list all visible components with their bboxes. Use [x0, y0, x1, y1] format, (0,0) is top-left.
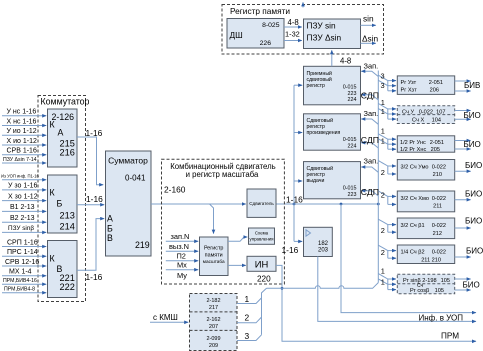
svg-text:К: К [50, 120, 56, 130]
svg-text:Δsin: Δsin [362, 34, 379, 44]
output wires 3/2 Сч β1 0-022 212 [455, 227, 471, 229]
svg-text:ДШ: ДШ [230, 30, 243, 40]
block ПЗУ sin / ПЗУ Δsin [304, 19, 361, 49]
svg-text:4-8: 4-8 [340, 57, 351, 66]
svg-text:0-041: 0-041 [125, 174, 146, 183]
svg-text:1/4 Сч β2: 1/4 Сч β2 [401, 250, 425, 256]
block 3/2 Сч Умо 0-022 210 [397, 160, 454, 181]
svg-text:ПРС 1-14: ПРС 1-14 [7, 249, 38, 256]
svg-text:2-099: 2-099 [206, 336, 220, 342]
block Рг Узт / Рг Хзт 2-051 206 [397, 76, 454, 95]
input wires 1/2 Рг Унс 2-051 / 1/2 Рг Хнс 205 [387, 139, 389, 149]
input wires Сч У 0-022 107 / Сч Х 104 [387, 109, 389, 119]
svg-text:ПРМ,БИВ4-16: ПРМ,БИВ4-16 [3, 278, 37, 284]
svg-text:Х нс 1-16: Х нс 1-16 [7, 118, 37, 125]
output wires 3/2 Сч Хмо 0-022 211 [455, 199, 471, 201]
svg-text:СДП: СДП [361, 187, 379, 197]
svg-text:Коммутатор: Коммутатор [41, 96, 90, 106]
up output stub arrow [302, 2, 304, 7]
input wires Рг sinβ 2-198 105 / Сч / Рг cosβ 105 [387, 279, 389, 290]
wire Зап. arrow into register at y71.2 [361, 71, 378, 76]
svg-text:Сдвиговый: Сдвиговый [307, 117, 334, 124]
svg-text:2-160: 2-160 [164, 185, 186, 195]
svg-text:Рг Хзт: Рг Хзт [401, 87, 418, 93]
memory register dashed box [222, 5, 384, 55]
svg-text:224: 224 [348, 143, 357, 149]
svg-text:К: К [50, 188, 56, 198]
svg-text:224: 224 [348, 97, 357, 103]
svg-text:2-162: 2-162 [206, 317, 220, 323]
input wires Рг Узт / Рг Хзт 2-051 206 [387, 81, 389, 91]
wire Δsin output [361, 42, 376, 44]
svg-text:ПЗУ Δsin: ПЗУ Δsin [307, 32, 342, 42]
svg-text:Зап.: Зап. [364, 62, 379, 71]
svg-text:207: 207 [209, 324, 218, 330]
svg-text:105: 105 [435, 288, 444, 294]
svg-text:БИО: БИО [465, 216, 482, 225]
svg-text:Зап.: Зап. [364, 157, 379, 166]
block 182 203 with clock triangle [304, 227, 333, 256]
svg-text:В2 2-13: В2 2-13 [10, 215, 35, 222]
output wires Сч У 0-022 107 / Сч Х 104 [455, 110, 471, 112]
svg-text:3: 3 [381, 71, 385, 80]
svg-text:2-051: 2-051 [430, 140, 444, 146]
svg-text:Рг Узт: Рг Узт [401, 80, 417, 86]
svg-text:206: 206 [430, 87, 439, 93]
KMSh dashed box with three cells [190, 294, 238, 351]
svg-text:БИО: БИО [465, 161, 482, 170]
wire СДП arrow into register at y142.7 [361, 143, 378, 148]
svg-text:2-126: 2-126 [52, 112, 75, 122]
svg-text:1/2 Рг Хнс: 1/2 Рг Хнс [400, 147, 426, 153]
svg-text:БИО: БИО [463, 281, 480, 290]
svg-text:223: 223 [348, 192, 357, 198]
svg-text:с КМШ: с КМШ [153, 313, 178, 322]
svg-text:Сдвигатель: Сдвигатель [249, 201, 274, 206]
junction at collector on bus [377, 203, 380, 206]
block 1/2 Рг Унс 2-051 / 1/2 Рг Хнс 205 [397, 136, 454, 152]
svg-text:регистр: регистр [307, 124, 326, 130]
svg-text:2: 2 [381, 168, 385, 177]
svg-text:Сумматор: Сумматор [108, 156, 148, 166]
svg-text:0-022: 0-022 [432, 223, 446, 229]
svg-text:1: 1 [381, 98, 385, 107]
svg-text:памяти: памяти [205, 252, 223, 258]
svg-text:Му: Му [177, 271, 187, 280]
junction ИН line with lower bus [281, 287, 284, 290]
input wires 3/2 Сч Умо 0-022 210 [387, 166, 389, 174]
svg-text:и регистр масштаба: и регистр масштаба [186, 170, 259, 179]
svg-text:БИВ: БИВ [464, 81, 480, 90]
svg-text:Б: Б [57, 199, 63, 209]
wire ПЗУ feed 4-8 from Приемный up [331, 50, 333, 66]
svg-text:182: 182 [318, 241, 329, 247]
svg-text:1-16: 1-16 [282, 245, 299, 255]
block Сч У 0-022 107 / Сч Х 104 [397, 106, 454, 124]
wire масштаба to ИН [228, 264, 246, 266]
svg-text:ИН: ИН [255, 259, 269, 270]
svg-text:П2: П2 [177, 251, 186, 260]
svg-text:205: 205 [431, 147, 440, 153]
wire bus Сдвигатель to right collector [276, 203, 378, 205]
svg-text:СРВ 1-16: СРВ 1-16 [7, 148, 37, 155]
svg-text:Сч Х: Сч Х [412, 117, 424, 123]
svg-text:1: 1 [381, 126, 385, 135]
svg-text:управления: управления [250, 236, 275, 241]
svg-text:Рг cosβ: Рг cosβ [410, 288, 429, 294]
svg-text:Из УОП инф. П1-16: Из УОП инф. П1-16 [1, 173, 40, 178]
svg-text:104: 104 [432, 117, 441, 123]
block Регистр памяти масштаба [200, 237, 229, 276]
svg-text:216: 216 [60, 147, 75, 157]
wire main collector x378 [377, 71, 379, 283]
block ДШ 8-025 226 [227, 19, 284, 49]
block Схема управления [249, 228, 275, 244]
svg-text:БИО: БИО [466, 247, 483, 256]
svg-text:226: 226 [260, 40, 272, 47]
output wires 1/2 Рг Унс 2-051 / 1/2 Рг Хнс 205 [455, 140, 471, 142]
svg-text:203: 203 [318, 247, 329, 253]
wire К Б output to Сумматор input Б [77, 204, 104, 206]
block 3/2 Сч β1 0-022 212 [397, 218, 454, 239]
wire ИН output down to ПРМ [276, 265, 476, 341]
svg-text:БИО: БИО [464, 140, 481, 149]
wire ДШ to ПЗУ 4-8 [284, 26, 302, 28]
svg-text:1: 1 [245, 294, 250, 304]
svg-text:Приемный: Приемный [307, 70, 333, 77]
svg-text:0-015: 0-015 [343, 85, 357, 91]
block Сдвиговый регистр произведения 0-015 224 [304, 114, 361, 150]
block Сдвигатель [247, 189, 276, 217]
svg-text:210: 210 [433, 172, 442, 178]
svg-text:ПРМ: ПРМ [441, 332, 459, 341]
wire ДШ to ПЗУ 1-32 [284, 40, 302, 42]
svg-text:СДП: СДП [361, 90, 379, 100]
svg-text:БИО: БИО [465, 190, 482, 199]
svg-text:220: 220 [257, 275, 271, 284]
svg-text:3/2 Сч β1: 3/2 Сч β1 [401, 223, 425, 229]
svg-text:СРП 1-16: СРП 1-16 [7, 239, 38, 246]
output wires Рг sinβ 2-198 105 / Сч / Рг cosβ 105 [455, 278, 471, 280]
wire cell2 output 2 [237, 317, 262, 323]
svg-text:1-16: 1-16 [86, 272, 103, 282]
input wires 1/4 Сч β2 0-022 211 210 [387, 251, 389, 259]
input wires 3/2 Сч β1 0-022 212 [387, 225, 389, 233]
svg-text:1: 1 [381, 136, 385, 145]
svg-text:213: 213 [60, 211, 75, 221]
block Приемный сдвиговый регистр 0-015 223 224 [304, 66, 361, 105]
svg-text:произведения: произведения [307, 130, 341, 136]
svg-text:1-16: 1-16 [86, 194, 103, 204]
svg-text:1/2 Рг Унс: 1/2 Рг Унс [400, 140, 426, 146]
svg-text:МХ 1-4: МХ 1-4 [9, 269, 32, 276]
block 3/2 Сч Хмо 0-022 211 [397, 191, 454, 212]
svg-text:Инф. в УОП: Инф. в УОП [419, 313, 464, 322]
svg-text:регистр: регистр [307, 172, 326, 178]
svg-text:214: 214 [60, 222, 75, 232]
svg-text:Сдвиговый: Сдвиговый [307, 165, 334, 172]
svg-text:Х зо 1-12: Х зо 1-12 [8, 193, 38, 200]
svg-text:Схема: Схема [255, 231, 269, 236]
block Сумматор 0-041 219 [106, 151, 152, 256]
wire sin output [361, 24, 376, 26]
svg-text:СДП: СДП [361, 135, 379, 145]
svg-text:2-051: 2-051 [429, 80, 443, 86]
svg-text:0-022: 0-022 [432, 196, 446, 202]
output wires 3/2 Сч Умо 0-022 210 [455, 170, 471, 172]
svg-text:Х ио 1-12: Х ио 1-12 [7, 138, 37, 145]
svg-text:4-8: 4-8 [288, 18, 299, 27]
svg-text:2-182: 2-182 [206, 298, 220, 304]
svg-text:211: 211 [433, 204, 442, 210]
svg-text:СРВ 12-16: СРВ 12-16 [5, 259, 39, 266]
svg-text:БИО: БИО [464, 111, 481, 120]
block 1/4 Сч β2 0-022 211 210 [397, 245, 454, 264]
svg-text:масштаба: масштаба [203, 259, 225, 264]
svg-text:2: 2 [381, 226, 385, 235]
output wires Рг Узт / Рг Хзт 2-051 206 [455, 80, 471, 82]
wire К А output to Сумматор input А [77, 137, 103, 185]
svg-text:8-025: 8-025 [262, 22, 280, 29]
svg-text:2: 2 [245, 313, 250, 323]
wire СДП arrow into register at y94.7 [361, 95, 378, 100]
svg-text:Сч У: Сч У [402, 109, 414, 115]
svg-text:219: 219 [135, 240, 150, 250]
svg-text:209: 209 [209, 343, 218, 349]
wire cell3 output 3 [237, 335, 262, 341]
svg-text:223: 223 [348, 91, 357, 97]
svg-text:105: 105 [441, 278, 450, 284]
wire lower bus y288 with hops [267, 283, 379, 289]
svg-text:2: 2 [381, 191, 385, 200]
svg-text:У ио 1-12: У ио 1-12 [7, 128, 37, 135]
wire Зап. arrow into register at y167.0 [361, 167, 378, 172]
svg-text:0-022: 0-022 [432, 164, 446, 170]
svg-text:0-022: 0-022 [419, 109, 433, 115]
svg-text:0-015: 0-015 [343, 137, 357, 143]
commutator dashed box [38, 96, 86, 302]
svg-text:Мх: Мх [177, 260, 187, 269]
svg-text:В1 2-13: В1 2-13 [10, 204, 35, 211]
wire left vertical bus x294 [293, 85, 295, 241]
wire KMSh collector up to lower bus [262, 288, 267, 335]
svg-text:Регистр: Регистр [204, 245, 224, 251]
wire масштаба to Схема управления [228, 237, 247, 241]
block Рг sinβ 2-198 105 / Сч / Рг cosβ 105 [397, 274, 454, 294]
wire x318 vertical from 182 203 to lower УОП line [318, 257, 476, 322]
svg-text:1: 1 [381, 277, 385, 286]
divider dashed 2 [190, 329, 238, 331]
wire Зап. arrow into register at y119.0 [361, 119, 378, 124]
svg-text:217: 217 [209, 305, 218, 311]
svg-text:ПЗУ Δsin 7-14: ПЗУ Δsin 7-14 [3, 157, 37, 163]
svg-text:222: 222 [60, 282, 75, 292]
svg-text:Зап.: Зап. [364, 109, 379, 118]
svg-text:3: 3 [381, 81, 385, 90]
svg-text:У зо 1-16: У зо 1-16 [8, 183, 37, 190]
svg-text:Б: Б [107, 224, 113, 234]
svg-text:зап.N: зап.N [171, 232, 190, 241]
svg-text:выдачи: выдачи [307, 178, 325, 184]
block К А 2-126 215 216 [48, 109, 78, 167]
wire stub into регистр выдачи [294, 180, 302, 182]
divider dashed 1 [190, 311, 238, 313]
wire К В output to Сумматор input В [77, 219, 104, 271]
junction at x341 on bus [340, 203, 343, 206]
output wires 1/4 Сч β2 0-022 211 210 [455, 256, 471, 258]
svg-text:Регистр памяти: Регистр памяти [230, 6, 290, 16]
svg-text:сдвиговый: сдвиговый [307, 76, 332, 83]
svg-text:3/2 Сч Умо: 3/2 Сч Умо [401, 164, 429, 170]
block К Б 213 214 [48, 175, 78, 233]
wire stub into регистр произведения [294, 132, 302, 134]
svg-text:1: 1 [381, 266, 385, 275]
svg-text:1-16: 1-16 [286, 194, 303, 204]
svg-text:3: 3 [245, 331, 250, 341]
wire stub into block 182 203 [294, 240, 302, 242]
svg-text:107: 107 [436, 109, 445, 115]
svg-text:0-022: 0-022 [432, 250, 446, 256]
svg-text:1-16: 1-16 [86, 128, 103, 138]
svg-text:В: В [107, 233, 113, 243]
combinational shifter dashed box [162, 159, 285, 284]
svg-text:1-32: 1-32 [285, 30, 300, 39]
svg-text:212: 212 [433, 231, 442, 237]
block К В 221 222 [48, 241, 78, 298]
svg-text:регистр: регистр [307, 83, 326, 89]
svg-text:sin: sin [363, 14, 374, 24]
svg-text:У нс 1-16: У нс 1-16 [7, 109, 37, 116]
block Сдвиговый регистр выдачи 0-015 223 [304, 162, 361, 199]
block ИН [247, 256, 276, 271]
svg-text:ПЗУ sinβ: ПЗУ sinβ [8, 225, 34, 232]
svg-text:К: К [50, 254, 56, 264]
svg-text:0-015: 0-015 [343, 186, 357, 192]
svg-text:выз.N: выз.N [169, 242, 189, 251]
svg-text:1: 1 [381, 107, 385, 116]
wire stub into Приемный [294, 84, 302, 86]
svg-text:ПРМ,БИВ4-8: ПРМ,БИВ4-8 [4, 287, 35, 293]
svg-text:2: 2 [381, 248, 385, 257]
wire СДП arrow into register at y190.7 [361, 191, 378, 196]
wire bus branch down to Регистр памяти масштаба [210, 204, 214, 234]
wire cell1 output 1 [237, 298, 262, 304]
svg-text:211 210: 211 210 [421, 257, 441, 263]
input wires 3/2 Сч Хмо 0-022 211 [387, 196, 389, 204]
svg-text:А: А [58, 127, 64, 137]
wire x341 vertical to upper УОП line [341, 204, 476, 313]
svg-text:3/2 Сч Хмо: 3/2 Сч Хмо [401, 196, 429, 202]
svg-text:ПЗУ sin: ПЗУ sin [307, 21, 336, 31]
wire Сумматор output bus to Сдвигатель [151, 203, 246, 205]
junction at x294 on bus [293, 203, 296, 206]
svg-text:А: А [107, 214, 113, 224]
